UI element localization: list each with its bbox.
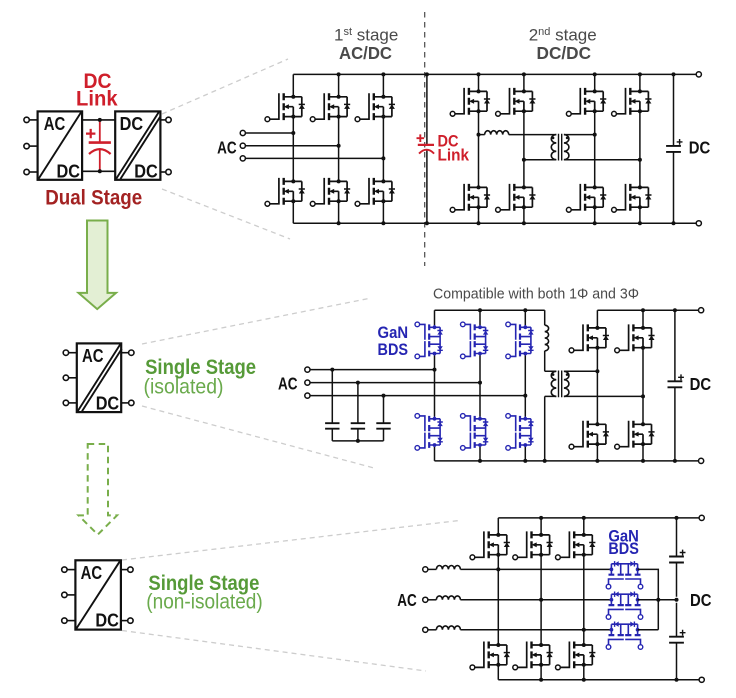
wire: phase A line <box>245 132 293 134</box>
junction dots bottom buses <box>539 516 543 520</box>
svg-text:DC: DC <box>95 610 119 631</box>
wire: bottom bridge leg 1 <box>497 518 499 680</box>
filter capacitor C1 <box>331 370 333 441</box>
transistor QM4 (middle rectifier leg 2 low) <box>615 421 655 449</box>
converter block AC/DC single stage isolated <box>77 343 121 412</box>
wire: 1st stage leg 1 <box>292 74 294 223</box>
junction dots on DC buses (1st stage legs) <box>337 72 341 76</box>
wire: middle secondary leads <box>564 371 643 396</box>
capacitor: DC link (red, block diagram) <box>86 121 111 170</box>
node: phase tap leg 2 <box>337 144 341 148</box>
svg-text:DC: DC <box>120 113 144 134</box>
wire: bottom phase B line <box>460 599 611 601</box>
wire: 2nd stage leg 1 <box>478 74 480 223</box>
wire: phase B line <box>245 145 338 147</box>
capacitor: DC link (red) <box>417 134 435 153</box>
wire: to primary winding <box>545 371 557 461</box>
wire: bottom bridge leg 3 <box>583 518 585 680</box>
wire: middle top bus (right) <box>597 309 698 311</box>
svg-text:AC: AC <box>397 590 417 610</box>
output terminal top (DC+) <box>696 72 701 77</box>
node: phase tap leg 3 <box>381 156 385 160</box>
wire: filter cap bus <box>332 440 383 442</box>
wire: bottom top bus <box>498 517 699 519</box>
svg-text:AC: AC <box>81 562 103 583</box>
wire: BDS leg 1 <box>434 310 436 461</box>
svg-text:AC/DC: AC/DC <box>339 43 392 63</box>
wire: bottom DC bus <box>293 222 696 224</box>
wire: middle rectifier leg 2 <box>642 310 644 461</box>
svg-text:AC: AC <box>217 137 237 157</box>
svg-text:AC: AC <box>82 345 104 366</box>
transistor QB3 (bottom leg 2 high) <box>513 531 553 559</box>
transistor QB5 (bottom leg 3 high) <box>556 531 596 559</box>
transistor Q14 (2nd stage leg 4 low side) <box>612 184 652 212</box>
node: middle rectifier leg 1 midpoint <box>595 369 599 373</box>
wire: DC link branch <box>426 74 428 223</box>
output terminals of dual stage block <box>160 119 165 121</box>
converter block DC/DC (dual stage) <box>115 111 160 179</box>
wire: BDS leg 2 <box>479 310 481 461</box>
callout dashed line middle lower <box>142 406 374 468</box>
GaN BDS switch S3 (leg 2 high side) <box>461 322 489 359</box>
wire: BDS leg 3 <box>524 310 526 461</box>
node: middle phase tap leg 2 <box>478 381 482 385</box>
wire: middle rectifier leg 1 <box>596 310 598 461</box>
node: bottom phase tap leg 3 <box>582 628 586 632</box>
filter capacitor C3 <box>383 396 385 441</box>
stage separator dashed line <box>424 12 426 266</box>
wire: bottom bottom bus <box>498 679 699 681</box>
capacitor C bottom (split dc link) <box>676 603 678 680</box>
node: 2nd stage leg 1 midpoint <box>477 133 481 137</box>
input terminals of dual stage block <box>29 119 37 121</box>
wire: middle phase A line <box>310 369 435 371</box>
callout dashed line middle upper <box>142 298 371 344</box>
transistor Q12 (2nd stage leg 3 low side) <box>566 184 606 212</box>
svg-text:Link: Link <box>76 87 118 110</box>
GaN BDS switch S4 (leg 2 low side) <box>461 414 489 451</box>
svg-text:DC: DC <box>96 393 120 414</box>
node: 2nd stage leg 3 midpoint <box>593 133 597 137</box>
wire: bottom phase A line <box>460 568 611 570</box>
GaN BDS switch S2 (leg 1 low side) <box>415 414 443 451</box>
transistor Q1 (1st stage leg 1 high side) <box>265 93 305 121</box>
svg-text:AC: AC <box>44 113 66 134</box>
wire: 1st stage leg 2 <box>338 74 340 223</box>
terminals of isolated block <box>69 352 77 354</box>
inductor L4 (phase B) <box>428 599 437 601</box>
transistor Q5 (1st stage leg 3 high side) <box>355 93 395 121</box>
svg-text:Dual Stage: Dual Stage <box>45 186 142 209</box>
wire: 2nd stage leg 2 <box>523 74 525 223</box>
transistor QB4 (bottom leg 2 low) <box>513 642 553 670</box>
transistor Q2 (1st stage leg 1 low side) <box>265 178 305 206</box>
GaN BDS switch S6 (leg 3 low side) <box>506 414 534 451</box>
transistor Q7 (2nd stage leg 1 high side) <box>450 88 490 116</box>
svg-text:DC: DC <box>689 137 711 157</box>
transistor Q11 (2nd stage leg 3 high side) <box>566 88 606 116</box>
wire: bottom bridge leg 2 <box>540 518 542 680</box>
wire: bottom phase C line <box>460 629 611 631</box>
wire: middle bottom bus <box>435 460 699 462</box>
AC input terminals (bottom) <box>423 567 428 572</box>
transistor QB6 (bottom leg 3 low) <box>556 642 596 670</box>
wire: middle phase B line <box>310 382 480 384</box>
node: 2nd stage leg 2 midpoint <box>522 158 526 162</box>
transistor Q4 (1st stage leg 2 low side) <box>310 178 350 206</box>
inductor L5 (phase C) <box>428 629 437 631</box>
green arrow (solid) dual stage to single stage <box>79 221 117 310</box>
capacitor C out (2nd stage) <box>673 74 675 223</box>
node: middle phase tap leg 3 <box>523 394 527 398</box>
wire: 1st stage leg 3 <box>382 74 384 223</box>
node: middle rectifier leg 2 midpoint <box>641 394 645 398</box>
svg-text:2nd stage: 2nd stage <box>529 26 597 45</box>
svg-text:1st stage: 1st stage <box>334 26 398 45</box>
GaN BDS switch S1 (leg 1 high side) <box>415 322 443 359</box>
transistor Q8 (2nd stage leg 1 low side) <box>450 184 490 212</box>
transistor Q10 (2nd stage leg 2 low side) <box>496 184 536 212</box>
output terminal bottom (DC-) <box>696 221 701 226</box>
transistor Q13 (2nd stage leg 4 high side) <box>612 88 652 116</box>
wire: primary return to leg 2 <box>524 159 556 161</box>
transistor QM3 (middle rectifier leg 2 high) <box>615 324 655 352</box>
node: bottom phase tap leg 2 <box>539 598 543 602</box>
callout dashed line top upper <box>162 59 288 114</box>
svg-text:DC: DC <box>690 590 712 610</box>
callout dashed line bottom lower <box>122 631 426 672</box>
svg-text:BDS: BDS <box>378 341 409 359</box>
wire: 2nd stage leg 4 <box>639 74 641 223</box>
transistor Q6 (1st stage leg 3 low side) <box>355 178 395 206</box>
GaN BDS switch S8 (bottom phase B) <box>606 592 643 620</box>
junction dots middle buses <box>478 308 482 312</box>
inductor L2 (middle, series) <box>544 310 546 325</box>
transistor QM1 (middle rectifier leg 1 high) <box>569 324 609 352</box>
output terminals (middle) <box>699 308 704 313</box>
svg-text:DC: DC <box>134 161 158 182</box>
node: bottom phase tap leg 1 <box>496 567 500 571</box>
green arrow (dashed) to non-isolated <box>79 444 118 535</box>
wire: middle phase C line <box>310 395 525 397</box>
wire: BDS outputs to midpoint <box>638 569 677 629</box>
wire: phase C line <box>245 157 383 159</box>
svg-text:(non-isolated): (non-isolated) <box>146 591 263 614</box>
svg-text:BDS: BDS <box>608 540 639 558</box>
converter block AC/DC (dual stage rectifier) <box>38 111 83 179</box>
transistor Q9 (2nd stage leg 2 high side) <box>496 88 536 116</box>
GaN BDS switch S9 (bottom phase C) <box>606 622 643 650</box>
transistor QB2 (bottom leg 1 low) <box>470 642 510 670</box>
svg-text:DC: DC <box>57 161 81 182</box>
capacitor C out (middle) <box>674 310 676 461</box>
node: phase tap leg 1 <box>291 131 295 135</box>
GaN BDS switch S5 (leg 3 high side) <box>506 322 534 359</box>
transistor QM2 (middle rectifier leg 1 low) <box>569 421 609 449</box>
terminals of non-isolated block <box>67 569 75 571</box>
inductor L1 (2nd stage primary) <box>479 134 485 136</box>
svg-text:Compatible with both 1Φ and 3Φ: Compatible with both 1Φ and 3Φ <box>433 287 639 303</box>
transformer T1 (2nd stage) <box>551 134 569 161</box>
junction dots on dc link bus <box>98 118 102 122</box>
wire: top DC bus <box>293 73 696 75</box>
inductor L3 (phase A) <box>428 568 437 570</box>
transistor QB1 (bottom leg 1 high) <box>470 531 510 559</box>
node: middle phase tap leg 1 <box>433 368 437 372</box>
GaN BDS switch S7 (bottom phase A) <box>606 561 643 589</box>
node: 2nd stage leg 4 midpoint <box>638 158 642 162</box>
wire: secondary to right bridge <box>564 135 640 160</box>
svg-text:Link: Link <box>438 145 470 164</box>
svg-text:AC: AC <box>278 373 298 393</box>
AC input terminals (middle) <box>305 367 310 372</box>
output terminals (bottom) <box>699 515 704 520</box>
transformer T2 (middle) <box>551 371 569 398</box>
transistor Q3 (1st stage leg 2 high side) <box>310 93 350 121</box>
wire: dc link bus between blocks <box>82 120 115 171</box>
filter capacitor C2 <box>357 383 359 441</box>
converter block AC/DC single stage non-isolated <box>75 560 121 629</box>
svg-text:(isolated): (isolated) <box>144 375 224 398</box>
callout dashed line bottom upper <box>122 520 460 560</box>
wire: middle top bus (left) <box>435 309 545 311</box>
capacitor C top (split dc link) <box>676 518 678 597</box>
AC input terminals (1st stage) <box>240 130 245 135</box>
callout dashed line top lower <box>162 189 290 239</box>
wire: 2nd stage leg 3 <box>594 74 596 223</box>
svg-text:DC/DC: DC/DC <box>537 43 592 63</box>
svg-text:DC: DC <box>690 374 712 394</box>
svg-text:GaN: GaN <box>378 324 409 342</box>
